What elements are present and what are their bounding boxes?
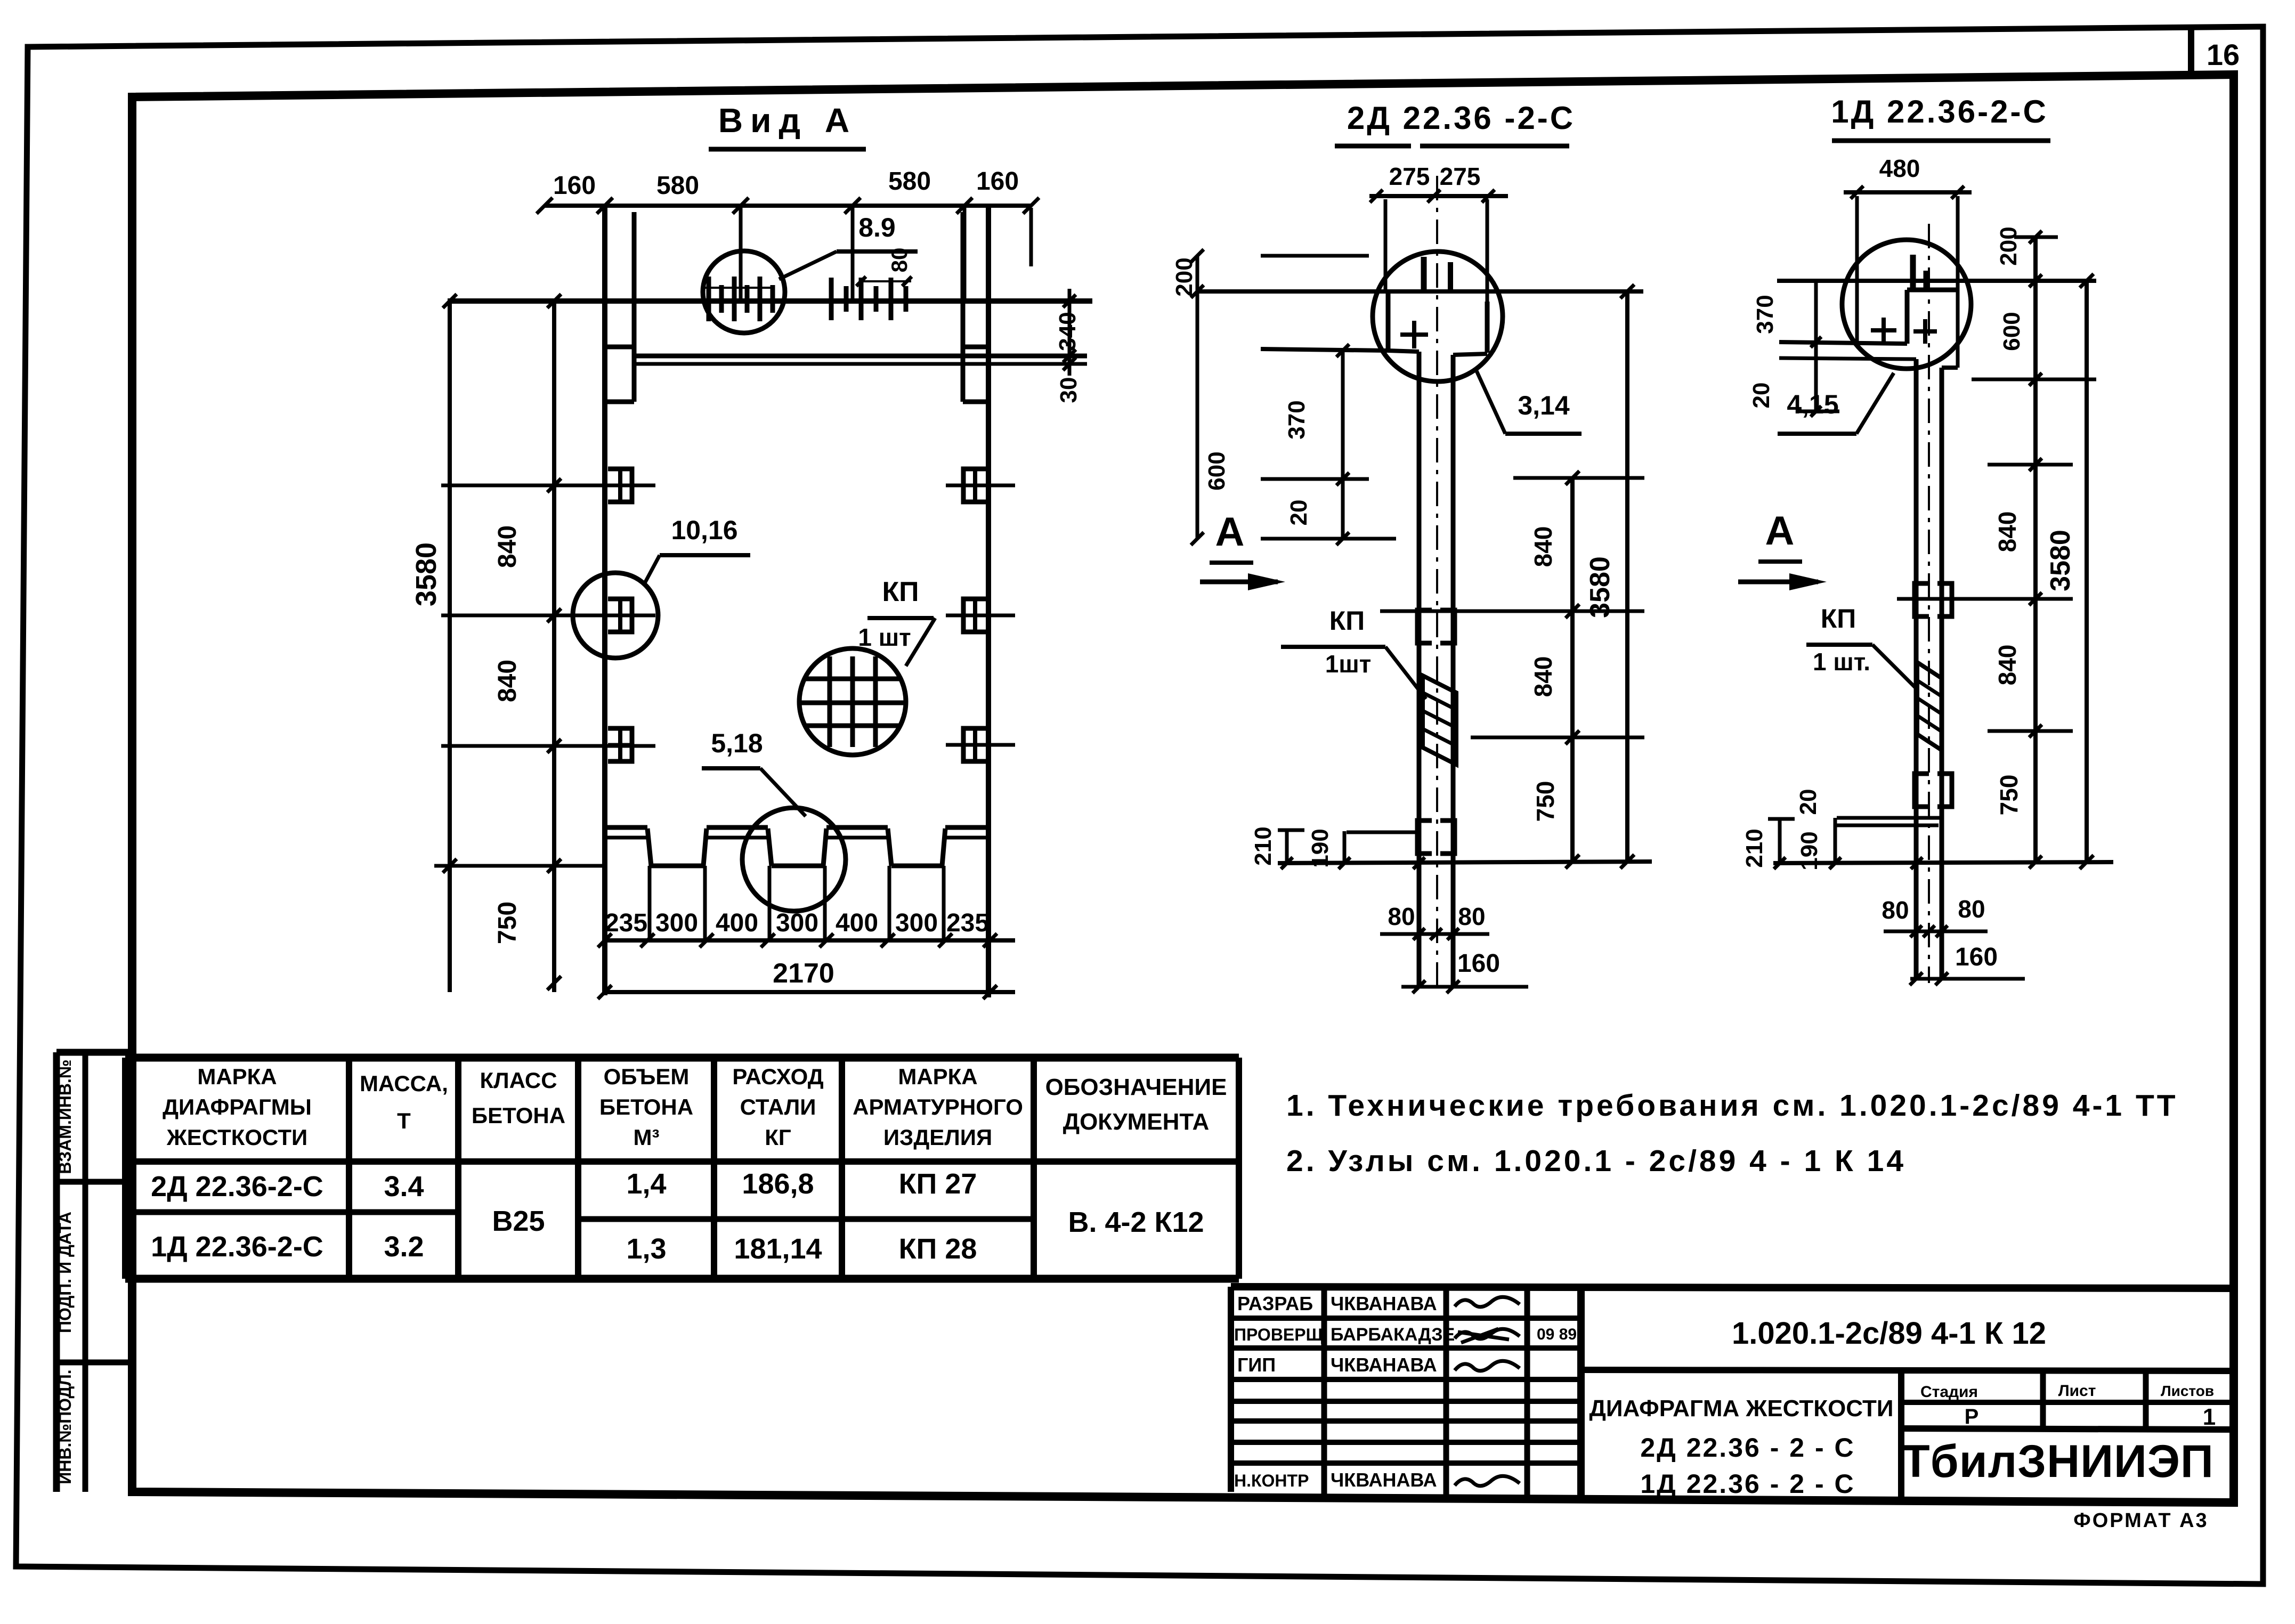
svg-text:80: 80 xyxy=(1958,895,1985,923)
svg-text:400: 400 xyxy=(716,909,758,937)
svg-text:КГ: КГ xyxy=(765,1125,791,1150)
svg-text:80: 80 xyxy=(1388,903,1415,930)
svg-text:186,8: 186,8 xyxy=(742,1168,814,1200)
svg-text:190: 190 xyxy=(1307,829,1333,867)
svg-text:5,18: 5,18 xyxy=(711,728,763,758)
svg-text:275: 275 xyxy=(1389,163,1430,190)
svg-text:Стадия: Стадия xyxy=(1920,1383,1978,1401)
svg-text:3580: 3580 xyxy=(1585,556,1616,618)
svg-text:ЧКВАНАВА: ЧКВАНАВА xyxy=(1331,1469,1437,1491)
svg-text:1. Технические требования см: 1. Технические требования см. 1.020.1-2с… xyxy=(1286,1089,2178,1123)
svg-text:840: 840 xyxy=(493,660,522,702)
svg-text:ИНВ.№ПОДЛ.: ИНВ.№ПОДЛ. xyxy=(55,1369,75,1484)
svg-text:РАЗРАБ: РАЗРАБ xyxy=(1237,1293,1313,1314)
svg-text:ИЗДЕЛИЯ: ИЗДЕЛИЯ xyxy=(883,1125,992,1150)
svg-text:210: 210 xyxy=(1250,826,1276,865)
svg-text:3.2: 3.2 xyxy=(384,1231,424,1263)
svg-text:275: 275 xyxy=(1440,163,1481,190)
svg-text:Вид А: Вид А xyxy=(718,101,857,140)
svg-text:А: А xyxy=(1765,508,1795,554)
svg-text:3580: 3580 xyxy=(410,542,442,606)
svg-text:840: 840 xyxy=(1993,511,2021,553)
svg-text:Н.КОНТР: Н.КОНТР xyxy=(1234,1471,1309,1490)
svg-text:300: 300 xyxy=(655,909,698,937)
svg-text:Т: Т xyxy=(397,1108,411,1133)
svg-text:80: 80 xyxy=(1882,896,1909,924)
svg-text:ЖЕСТКОСТИ: ЖЕСТКОСТИ xyxy=(166,1125,307,1150)
svg-text:840: 840 xyxy=(1529,656,1557,697)
svg-text:ДИАФРАГМА ЖЕСТКОСТИ: ДИАФРАГМА ЖЕСТКОСТИ xyxy=(1590,1395,1894,1422)
svg-text:КП 27: КП 27 xyxy=(899,1168,977,1200)
svg-text:ФОРМАТ А3: ФОРМАТ А3 xyxy=(2073,1509,2208,1532)
svg-text:160: 160 xyxy=(976,167,1019,196)
svg-text:840: 840 xyxy=(1529,526,1557,567)
svg-text:2. Узлы см. 1.020.1 - 2с/89: 2. Узлы см. 1.020.1 - 2с/89 4 - 1 К 14 xyxy=(1286,1144,1906,1178)
svg-text:160: 160 xyxy=(553,172,596,200)
svg-text:2Д 22.36 -2-С: 2Д 22.36 -2-С xyxy=(1347,100,1575,136)
svg-text:1шт: 1шт xyxy=(1325,650,1371,678)
svg-text:235: 235 xyxy=(605,909,647,937)
svg-text:ВЗАМ.ИНВ.№: ВЗАМ.ИНВ.№ xyxy=(55,1059,75,1174)
svg-text:20: 20 xyxy=(1748,383,1774,409)
svg-text:Р: Р xyxy=(1965,1405,1979,1428)
svg-text:ТбилЗНИИЭП: ТбилЗНИИЭП xyxy=(1902,1436,2214,1487)
svg-text:ПОДП. И ДАТА: ПОДП. И ДАТА xyxy=(55,1212,75,1333)
svg-text:Листов: Листов xyxy=(2161,1383,2214,1399)
svg-text:М³: М³ xyxy=(634,1125,660,1150)
svg-text:ГИП: ГИП xyxy=(1237,1354,1276,1376)
svg-text:ДОКУМЕНТА: ДОКУМЕНТА xyxy=(1063,1109,1210,1135)
svg-text:09 89: 09 89 xyxy=(1537,1326,1577,1343)
svg-text:РАСХОД: РАСХОД xyxy=(732,1064,823,1089)
svg-text:3580: 3580 xyxy=(2045,530,2076,591)
svg-text:ЧКВАНАВА: ЧКВАНАВА xyxy=(1331,1354,1437,1376)
svg-text:300: 300 xyxy=(776,909,818,937)
svg-text:КП: КП xyxy=(1329,606,1365,636)
svg-text:1,3: 1,3 xyxy=(626,1233,666,1265)
svg-text:БАРБАКАДЗЕ: БАРБАКАДЗЕ xyxy=(1331,1325,1455,1345)
svg-text:200: 200 xyxy=(1171,257,1197,296)
svg-text:ЧКВАНАВА: ЧКВАНАВА xyxy=(1331,1293,1437,1314)
svg-text:1Д 22.36-2-С: 1Д 22.36-2-С xyxy=(1831,94,2048,129)
svg-text:580: 580 xyxy=(656,172,699,200)
svg-text:16: 16 xyxy=(2207,38,2240,71)
svg-text:840: 840 xyxy=(1993,645,2021,686)
svg-text:АРМАТУРНОГО: АРМАТУРНОГО xyxy=(853,1094,1023,1119)
svg-text:Лист: Лист xyxy=(2058,1382,2096,1400)
svg-text:1 шт.: 1 шт. xyxy=(1813,648,1870,676)
svg-text:340: 340 xyxy=(1055,312,1081,351)
svg-text:3,14: 3,14 xyxy=(1518,391,1570,420)
svg-text:1: 1 xyxy=(2203,1404,2216,1430)
svg-text:600: 600 xyxy=(1999,312,2025,351)
svg-text:В25: В25 xyxy=(492,1205,545,1237)
svg-text:190: 190 xyxy=(1796,831,1822,870)
svg-text:БЕТОНА: БЕТОНА xyxy=(472,1103,565,1128)
svg-text:200: 200 xyxy=(1996,226,2022,265)
svg-text:300: 300 xyxy=(895,909,938,937)
svg-text:370: 370 xyxy=(1752,295,1778,334)
svg-text:210: 210 xyxy=(1741,829,1767,867)
svg-text:ОБЪЕМ: ОБЪЕМ xyxy=(604,1064,690,1089)
svg-text:ОБОЗНАЧЕНИЕ: ОБОЗНАЧЕНИЕ xyxy=(1045,1074,1227,1100)
svg-text:580: 580 xyxy=(888,167,931,196)
svg-text:МАССА,: МАССА, xyxy=(360,1071,448,1096)
svg-text:370: 370 xyxy=(1284,400,1310,439)
svg-text:КП 28: КП 28 xyxy=(899,1233,977,1265)
svg-text:400: 400 xyxy=(836,909,878,937)
svg-text:2Д 22.36 - 2 - С: 2Д 22.36 - 2 - С xyxy=(1640,1433,1855,1463)
svg-text:3.4: 3.4 xyxy=(384,1171,424,1203)
svg-text:А: А xyxy=(1215,509,1245,555)
svg-text:В. 4-2 К12: В. 4-2 К12 xyxy=(1068,1206,1204,1238)
svg-text:600: 600 xyxy=(1204,451,1230,490)
svg-text:20: 20 xyxy=(1286,500,1312,526)
svg-text:МАРКА: МАРКА xyxy=(197,1064,277,1089)
svg-text:840: 840 xyxy=(493,525,522,568)
svg-text:30: 30 xyxy=(1056,377,1082,403)
svg-text:750: 750 xyxy=(493,902,522,944)
svg-text:80: 80 xyxy=(1458,903,1485,930)
svg-text:МАРКА: МАРКА xyxy=(898,1064,977,1089)
svg-text:181,14: 181,14 xyxy=(734,1233,822,1265)
svg-text:10,16: 10,16 xyxy=(671,515,737,545)
svg-text:160: 160 xyxy=(1457,949,1500,978)
svg-text:ПРОВЕРЩ: ПРОВЕРЩ xyxy=(1234,1325,1324,1344)
svg-text:480: 480 xyxy=(1879,155,1920,182)
svg-text:750: 750 xyxy=(1531,781,1559,822)
svg-text:КП: КП xyxy=(882,576,919,607)
svg-text:235: 235 xyxy=(946,909,989,937)
svg-text:1Д 22.36 - 2 - С: 1Д 22.36 - 2 - С xyxy=(1640,1469,1855,1499)
svg-text:КП: КП xyxy=(1821,604,1856,634)
svg-text:1.020.1-2с/89 4-1 К 12: 1.020.1-2с/89 4-1 К 12 xyxy=(1732,1316,2046,1351)
svg-text:СТАЛИ: СТАЛИ xyxy=(740,1094,816,1119)
svg-text:160: 160 xyxy=(1955,943,1998,971)
svg-text:2170: 2170 xyxy=(773,958,834,989)
svg-text:750: 750 xyxy=(1995,775,2023,816)
svg-text:1,4: 1,4 xyxy=(626,1168,666,1200)
svg-text:2Д 22.36-2-С: 2Д 22.36-2-С xyxy=(151,1171,323,1203)
svg-text:КЛАСС: КЛАСС xyxy=(480,1068,557,1093)
svg-text:ДИАФРАГМЫ: ДИАФРАГМЫ xyxy=(163,1094,312,1119)
svg-text:8.9: 8.9 xyxy=(858,213,896,242)
svg-text:БЕТОНА: БЕТОНА xyxy=(599,1094,693,1119)
svg-text:1Д 22.36-2-С: 1Д 22.36-2-С xyxy=(151,1231,323,1263)
svg-text:20: 20 xyxy=(1795,789,1821,815)
svg-text:1 шт: 1 шт xyxy=(858,623,911,651)
